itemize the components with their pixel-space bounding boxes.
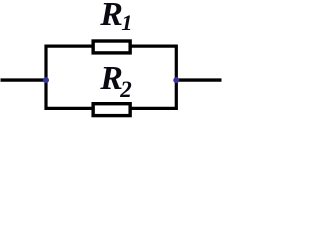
svg-text:1: 1 xyxy=(121,10,132,35)
label R1 xyxy=(99,0,132,35)
resistor R2 xyxy=(93,104,130,116)
label R2 xyxy=(99,60,132,102)
resistor R1 xyxy=(93,41,130,53)
wire left vertical up to top rail toward R1 xyxy=(46,46,93,82)
wire left lead xyxy=(1,78,47,81)
svg-text:2: 2 xyxy=(119,77,132,102)
svg-text:R: R xyxy=(99,0,123,33)
wire right lead xyxy=(176,78,221,81)
wire right vertical up to top rail from R1 xyxy=(130,46,176,82)
node A (left junction) xyxy=(43,77,49,83)
node B (right junction) xyxy=(173,77,179,83)
wire right vertical down to bottom rail from R2 xyxy=(130,78,176,108)
wire left vertical down to bottom rail toward R2 xyxy=(46,78,93,108)
